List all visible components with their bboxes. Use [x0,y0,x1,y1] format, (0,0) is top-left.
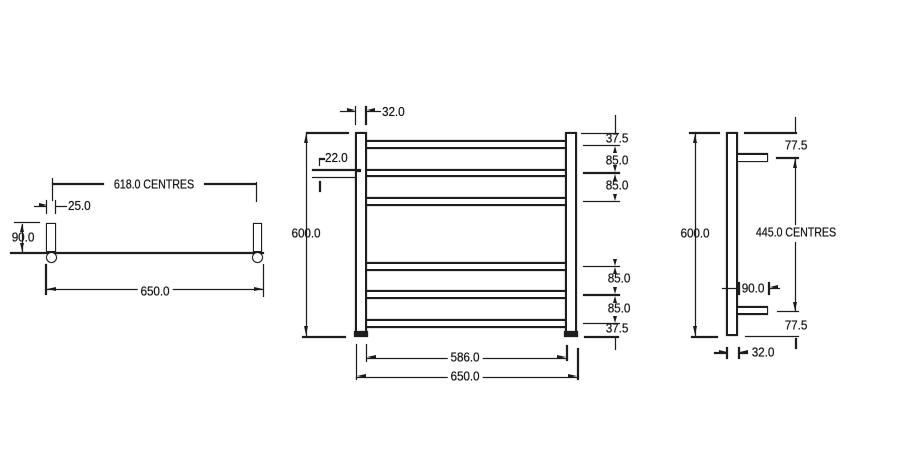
bar 2 element bottom line [312,177,366,179]
side dim 77.5 top tick [795,117,797,132]
dim 22.0 leader vertical [319,158,320,166]
left mounting post circle [46,252,58,264]
right chain arrow down at bar6 [613,316,617,323]
dim 32.0 leader line [367,111,381,112]
right chain extension bar1 [583,145,620,146]
side dim 90.0 tick left [738,282,740,295]
dim 618.0 tick left [52,178,54,201]
right mounting post circle [252,252,264,264]
left post bottom cap [354,331,368,337]
side dim 600.0 arrow up [693,134,697,143]
dim 25.0 left arrow line [34,206,47,207]
dim 650.0 center extension right [577,348,578,380]
dim 90.0 arrow up [20,224,24,232]
right chain arrow up at bar1 [613,146,617,153]
left bracket [46,223,55,252]
dim 586.0 extension right [566,345,567,361]
label 650.0 [137,285,172,298]
label 22.0 [325,152,348,165]
bar 2 [366,169,566,178]
dim 90.0 top extension line [14,222,41,223]
bar 3 [366,197,566,205]
dim 600.0 arrow up [304,134,308,143]
dim 32.0 arrowhead right [347,108,355,112]
side dim 32.0 left arrow line [714,352,727,353]
side dim 445.0 line lower segment [795,242,797,311]
side bottom bracket centre extension [777,311,799,312]
side dim 90.0 arrowhead left [770,285,778,289]
label 90.0 [12,232,35,245]
right chain extension bar5 [583,294,620,295]
side dim 32.0 tick left [726,347,728,359]
side dim 445.0 arrow down [793,302,797,311]
dim 32.0 left arrow line [340,111,355,112]
side top bracket centre extension [776,157,799,158]
right chain arrow down at bar2 [613,165,617,172]
dim 650.0 arrowhead right [254,287,263,291]
dim 618.0 CENTRES line right segment [204,183,256,184]
dim 618.0 tick right [256,182,258,203]
bar 2 element top line [312,169,366,171]
right chain extension line top of post [581,133,619,134]
label 77.5 top [784,139,807,152]
right chain extension bar3 [583,201,620,202]
side dim 600.0 bottom extension [691,336,719,338]
side dim 445.0 line upper segment [795,157,797,224]
right chain arrow down at bar4 [613,259,617,266]
dim 25.0 leader line [56,206,67,207]
label 77.5 bottom [784,319,807,332]
bar 2 element stub through post [357,169,362,172]
dim 600.0 bottom extension [302,336,346,338]
dim 618.0 CENTRES line left segment [52,183,104,184]
dim 650.0 line [45,289,263,290]
dim 90.0 line [22,224,23,252]
dim 600.0 top extension [306,132,349,133]
right chain arrow up at bar5 [613,296,617,303]
bar 1 [366,140,566,149]
side top extension line right [744,132,797,133]
dim 650.0 center arrowhead right [568,374,577,378]
left post [355,132,367,336]
side dim 600.0 top extension [689,132,720,133]
dim 90.0 arrow down [20,243,24,251]
side dim 77.5 bottom tick [795,338,797,349]
label 600.0 side view [680,228,709,241]
dim 586.0 arrowhead left [367,355,376,359]
dim 25.0 tick right [55,200,56,214]
dim 586.0 arrowhead right [557,355,566,359]
dim 650.0 extension right [263,264,264,297]
side dim 90.0 line right [770,288,781,289]
label 586.0 [448,352,483,365]
label 90.0 side [742,282,765,295]
dim 32.0 tick right [365,106,367,125]
right chain extension bar4 [583,266,620,267]
right post [565,132,577,336]
side top bracket [738,153,768,162]
dim 650.0 center extension left [356,344,357,380]
side dim 445.0 arrow up [793,159,797,168]
side bottom bracket [738,306,768,315]
label 85.0 second [606,179,629,192]
bar 6 [366,319,566,328]
side dim 32.0 arrowhead left [740,350,748,354]
right chain extension bottom of post [584,336,619,338]
dim 650.0 arrowhead left [47,287,56,291]
dim 25.0 arrowhead right [39,203,47,207]
side dim 32.0 arrowhead right [719,350,727,354]
right chain arrow up at bar2 [613,174,617,181]
side dim 32.0 leader line [740,352,748,353]
right bracket [253,223,262,252]
side dim 90.0 tick right [768,282,770,295]
dim 586.0 extension left [366,344,367,362]
dim 586.0 line [366,358,568,359]
side dim 600.0 arrow down [693,326,697,335]
bar 5 [366,290,566,299]
bar 4 [366,262,566,271]
side post [726,132,738,336]
dim 600.0 arrow down [304,326,308,335]
side dim 90.0 line left [722,288,738,289]
wall line [10,252,264,254]
right chain extension bar6 [583,323,620,324]
label 85.0 third [607,273,630,286]
label 618.0 CENTRES [114,178,194,191]
side dim 600.0 line [695,132,697,336]
label 25.0 [68,200,91,213]
label 37.5 bottom [605,323,628,336]
dim 32.0 arrowhead left [367,108,375,112]
side dim 32.0 tick right [738,347,740,359]
label 85.0 fourth [607,302,630,315]
dim 22.0 leader horizontal [319,158,326,159]
dim 25.0 tick left [46,200,47,214]
dim 32.0 tick left [355,106,357,125]
label 37.5 top [605,133,628,146]
dim 650.0 center arrowhead left [357,374,366,378]
side bottom extension line right [745,336,799,338]
label 32.0 side [752,347,775,360]
label 32.0 center view [382,106,405,119]
dim 650.0 extension left [45,264,46,295]
right chain arrow down at bar3 [613,194,617,201]
right chain tick above [615,115,617,133]
dim 650.0 center line [356,377,579,378]
right chain tick below [615,338,617,351]
right chain arrow down at bar5 [613,287,617,294]
label 445.0 CENTRES [756,227,836,240]
label 85.0 first [606,155,629,168]
dim 600.0 line [306,132,308,336]
right chain arrow up at bar4 [613,267,617,274]
right chain extension bar2 [583,172,620,173]
label 600.0 center view [292,228,321,241]
dim 22.0 lower tick [319,181,321,192]
right post bottom cap [564,331,578,337]
label 650.0 center [448,370,483,383]
